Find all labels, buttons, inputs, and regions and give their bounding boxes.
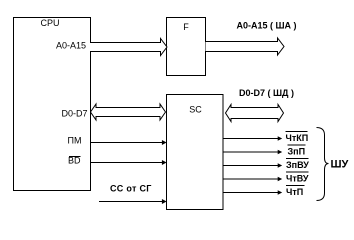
svg-text:D0-D7 ( ШД ): D0-D7 ( ШД ) <box>239 88 294 98</box>
svg-text:ЧтП: ЧтП <box>286 187 303 197</box>
wire PM from CPU to SC <box>90 142 163 144</box>
svg-text:ШУ: ШУ <box>331 159 349 171</box>
wire ZpVU output <box>223 165 279 167</box>
svg-text:SC: SC <box>189 105 202 115</box>
wire SS ot SG (clock) into SC <box>99 201 163 203</box>
svg-text:ПМ: ПМ <box>68 136 82 146</box>
svg-text:ЗпВУ: ЗпВУ <box>286 160 309 170</box>
wire ZpP output <box>223 151 279 153</box>
wire ChtVU output <box>223 178 279 180</box>
wire ChtP output <box>223 192 279 194</box>
svg-text:ЗпП: ЗпП <box>288 147 306 157</box>
svg-text:F: F <box>183 22 189 32</box>
bus wire D0-D7 CPU to SC (bidirectional hollow arrow) <box>91 104 166 120</box>
bus wire D0-D7 (ShD) from SC (bidirectional hollow arrow) <box>226 105 284 122</box>
bus wire A0-A15 from CPU to F (hollow arrow) <box>90 39 167 56</box>
wire BD from CPU to SC <box>90 162 163 164</box>
brace for ShU group <box>317 128 329 201</box>
svg-text:A0-A15: A0-A15 <box>56 41 86 51</box>
CPU block U1 <box>14 18 91 191</box>
svg-text:A0-A15 ( ША ): A0-A15 ( ША ) <box>237 21 297 31</box>
SC block (system controller) <box>167 95 224 210</box>
svg-text:СС от СГ: СС от СГ <box>110 184 152 194</box>
svg-text:ЧтВУ: ЧтВУ <box>286 174 309 184</box>
bus wire A0-A15 output (ShA) from F (hollow arrow) <box>206 38 285 55</box>
svg-text:D0-D7: D0-D7 <box>61 109 87 119</box>
buffer F block <box>167 18 206 76</box>
svg-text:CPU: CPU <box>40 18 59 28</box>
wire ChtKP output <box>223 138 279 140</box>
svg-text:ЧтКП: ЧтКП <box>286 133 309 143</box>
